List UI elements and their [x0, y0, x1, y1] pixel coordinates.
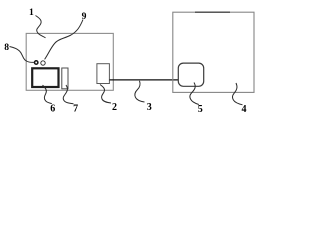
rounded rect 5 (inner unit) [178, 63, 203, 86]
leader line 2 [100, 85, 111, 104]
svg-text:5: 5 [198, 104, 203, 115]
box 4 top edge dark segment [195, 11, 230, 13]
leader line 7 [63, 85, 73, 104]
rect 6 (thick-bordered inner block) [32, 68, 58, 87]
wire 3 (connection line between boxes) [110, 79, 179, 81]
circle 8 target (small thick ring) [35, 61, 38, 64]
svg-text:4: 4 [242, 104, 247, 115]
svg-text:8: 8 [4, 42, 9, 53]
leader line 5 [190, 83, 199, 105]
box 1 (left enclosure) [26, 33, 113, 90]
circle 9 target (thin ring) [41, 61, 45, 65]
rect 7 (narrow inner block) [62, 68, 68, 89]
leader line 4 [232, 83, 242, 105]
box 4 (right enclosure) [173, 12, 254, 92]
leader line 8 [10, 47, 34, 63]
svg-text:2: 2 [112, 102, 117, 113]
leader line 6 [43, 85, 52, 103]
svg-text:7: 7 [73, 104, 78, 115]
svg-text:1: 1 [29, 7, 34, 18]
svg-text:6: 6 [50, 104, 55, 115]
leader line 9 [45, 20, 83, 60]
rect 2 (inner block right) [97, 64, 110, 84]
leader line 1 [36, 16, 46, 38]
leader line 3 [135, 81, 145, 102]
svg-text:3: 3 [147, 102, 152, 113]
